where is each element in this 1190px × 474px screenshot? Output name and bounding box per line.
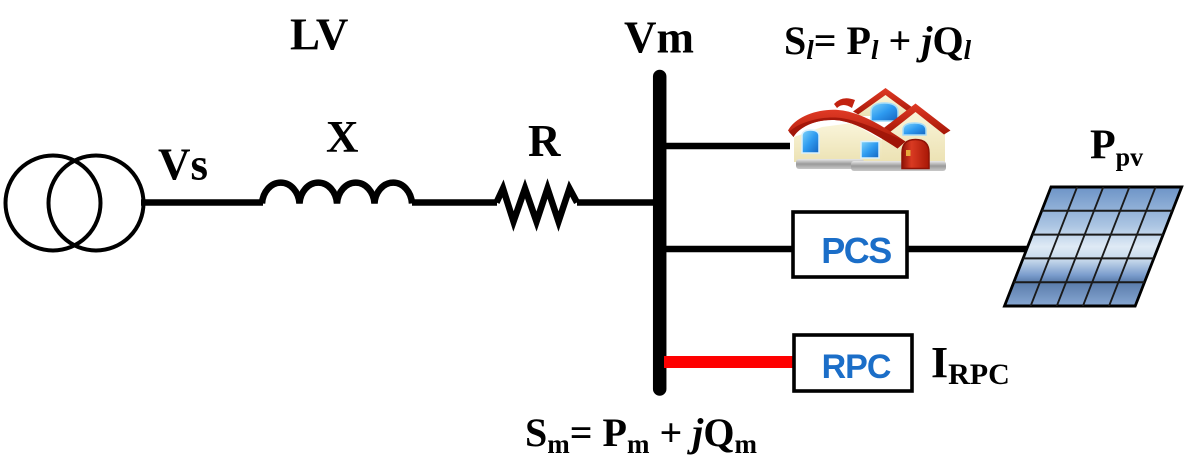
back gable roof xyxy=(853,88,918,116)
swoop roof underside shadow xyxy=(789,118,906,149)
middle window xyxy=(861,142,879,159)
svg-text:PCS: PCS xyxy=(821,230,891,271)
left wing window xyxy=(802,130,819,153)
right house wall xyxy=(882,110,945,162)
door knob xyxy=(906,150,911,156)
wire resistor to bus xyxy=(577,199,658,206)
source transformer (two overlapping circles) xyxy=(6,156,144,251)
right house roof xyxy=(881,104,951,135)
right house window xyxy=(903,123,926,135)
house load xyxy=(788,88,951,171)
swoop roof xyxy=(788,110,906,149)
svg-text:Vs: Vs xyxy=(158,140,208,190)
back gable wall xyxy=(856,95,914,116)
red wire bus to RPC xyxy=(664,356,796,368)
wire bus to PCS xyxy=(665,246,792,253)
right base xyxy=(851,161,946,171)
left base xyxy=(796,159,864,169)
left wing wall xyxy=(794,123,852,162)
door xyxy=(902,140,929,169)
wire PCS to PV panel xyxy=(907,246,1033,253)
svg-text:LV: LV xyxy=(290,10,348,60)
wire inductor to resistor xyxy=(412,199,497,206)
RPC box xyxy=(794,335,912,391)
wire source to inductor xyxy=(141,199,263,206)
svg-text:R: R xyxy=(528,116,561,166)
inductor X xyxy=(262,183,412,204)
swoop roof curl xyxy=(834,98,855,108)
solar panel P_pv xyxy=(1005,187,1182,306)
svg-text:RPC: RPC xyxy=(822,348,891,386)
svg-text:X: X xyxy=(326,112,359,162)
middle front wall xyxy=(852,123,882,162)
wire bus to house load xyxy=(665,143,790,150)
svg-text:Sm= Pm + jQm: Sm= Pm + jQm xyxy=(525,410,758,459)
svg-text:IRPC: IRPC xyxy=(931,338,1010,391)
svg-text:Vm: Vm xyxy=(624,13,694,63)
back gable window xyxy=(871,103,898,121)
PCS box xyxy=(793,212,907,277)
svg-text:Sl= Pl + jQl: Sl= Pl + jQl xyxy=(784,18,972,65)
bus bar Vm xyxy=(653,77,667,390)
svg-text:Ppv: Ppv xyxy=(1090,123,1143,172)
resistor R xyxy=(497,189,578,222)
